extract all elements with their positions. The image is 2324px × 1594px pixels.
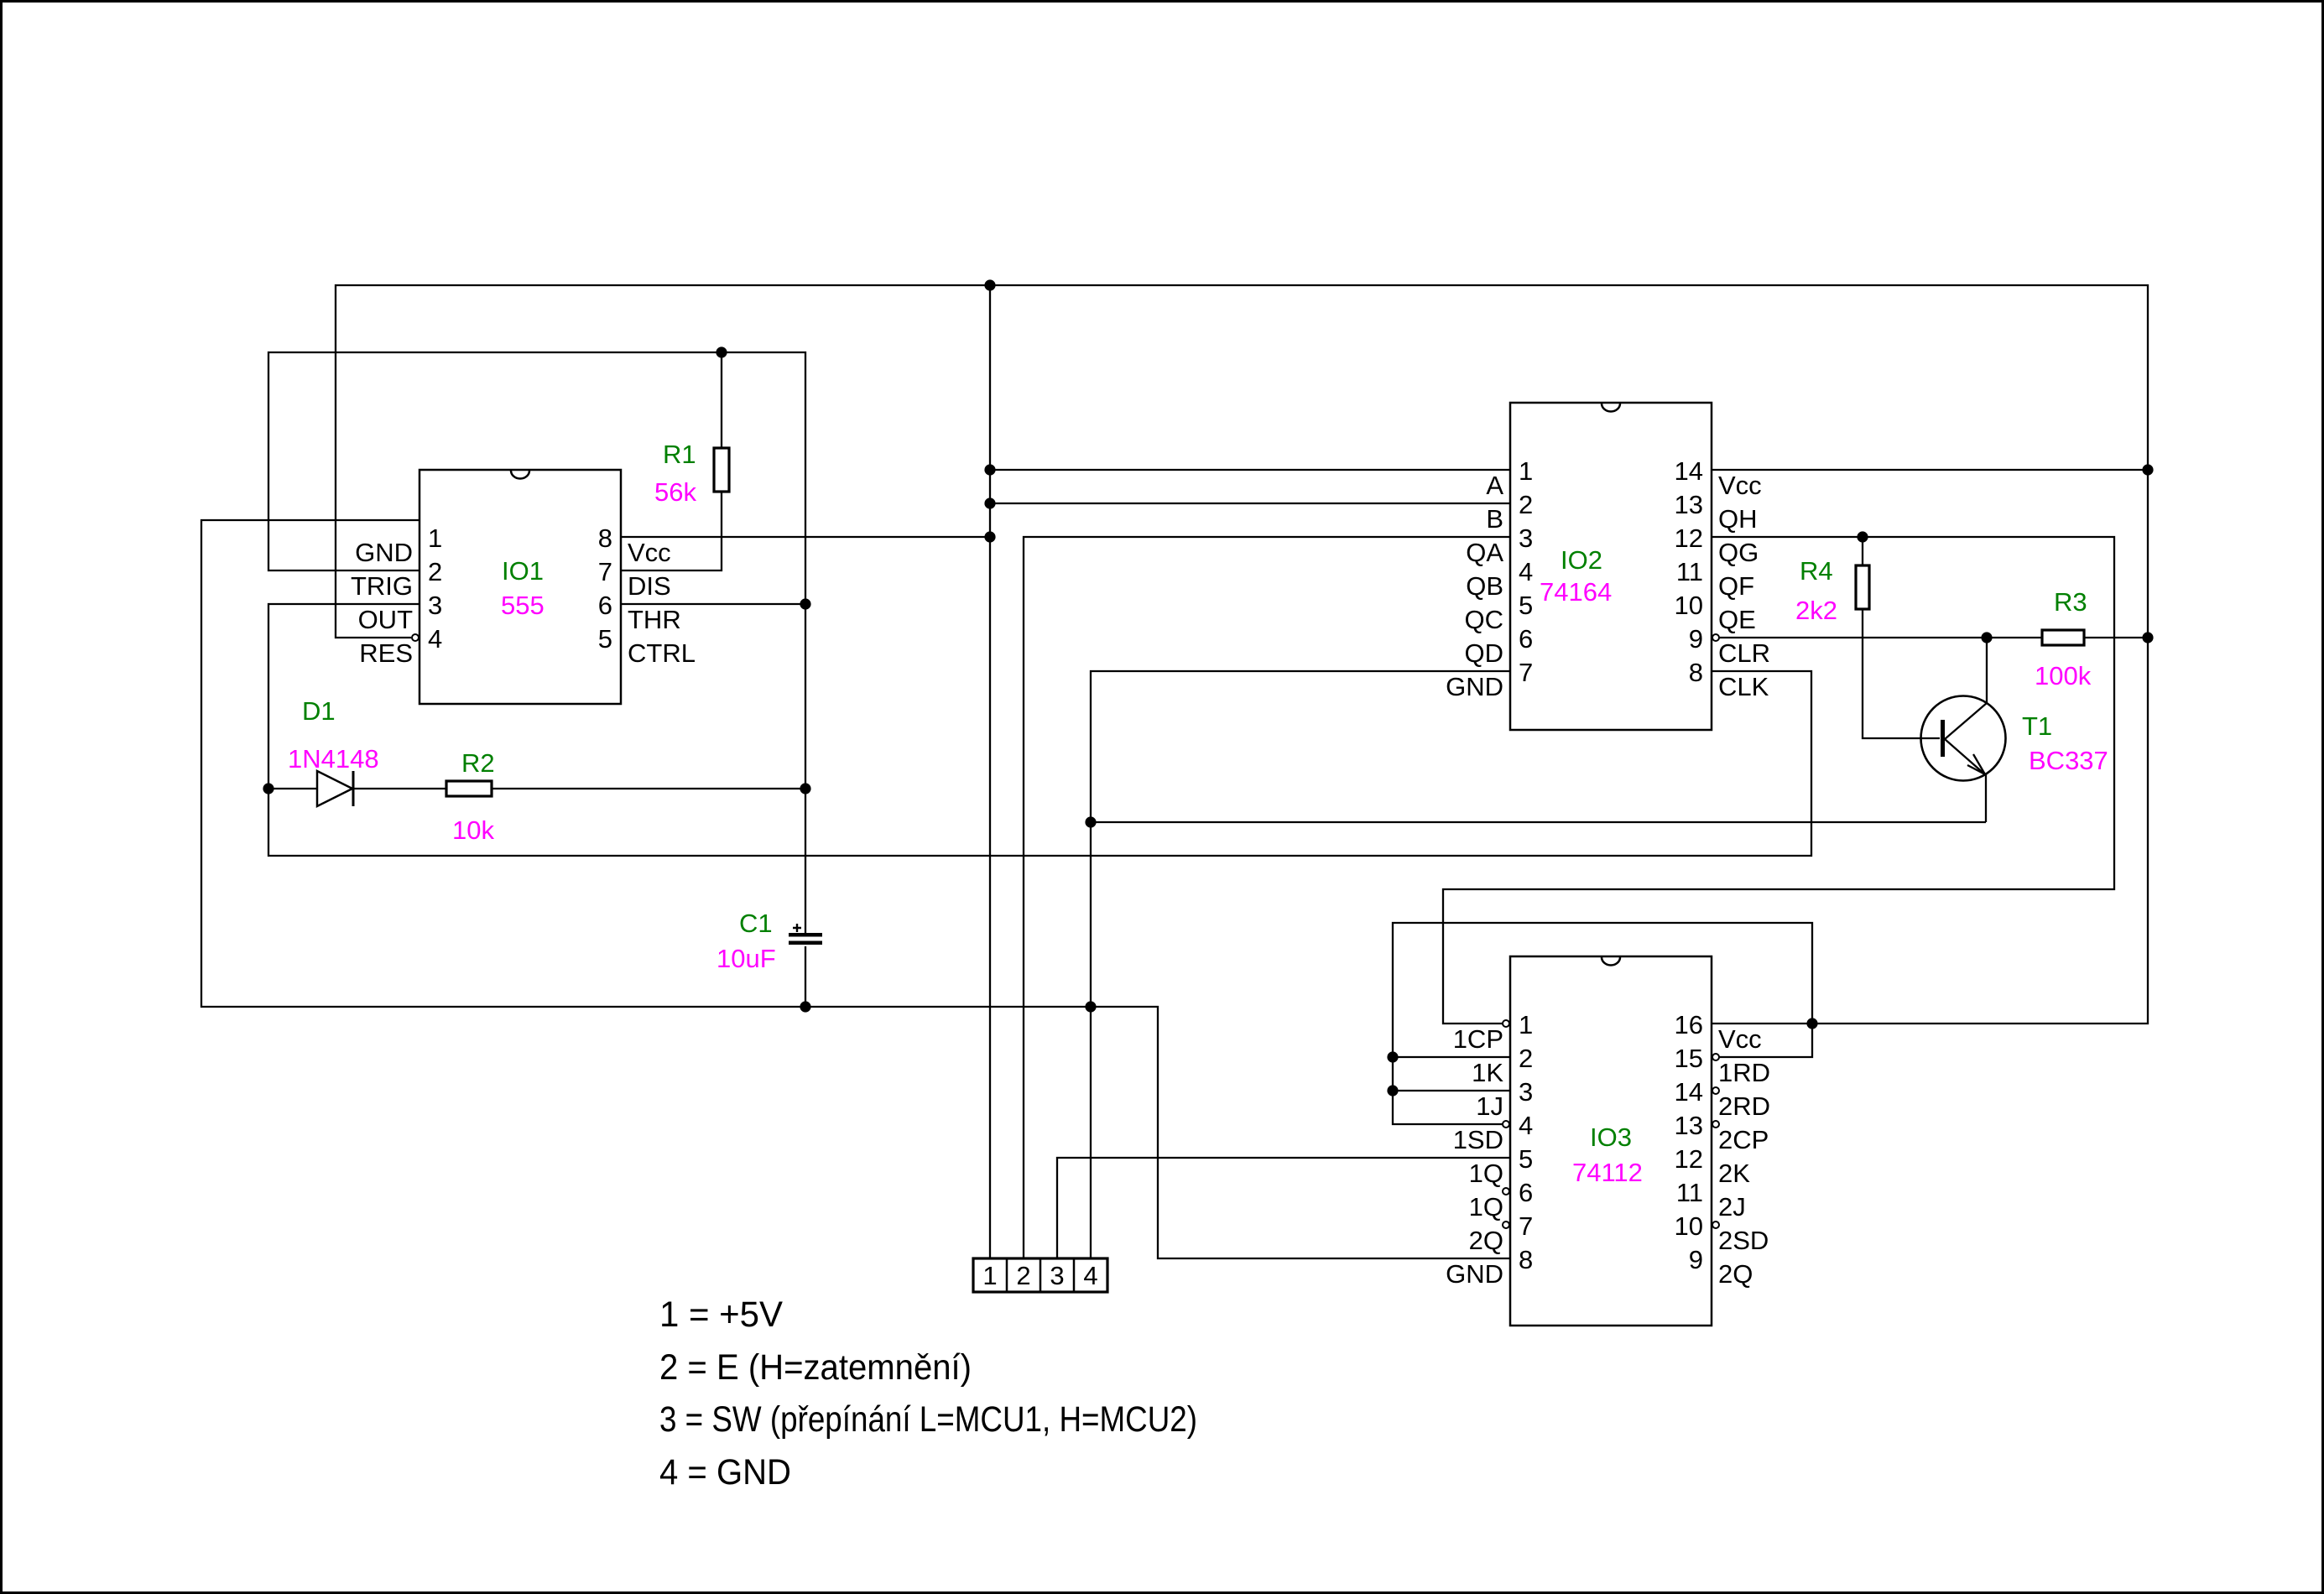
bubble IO3 pin15 1RD [1712,1054,1719,1060]
svg-text:10k: 10k [452,815,494,845]
wire R1 bottom lead to IO1 pin7 DIS [621,492,722,570]
svg-text:R1: R1 [663,440,696,469]
svg-text:12: 12 [1675,524,1703,553]
svg-text:10: 10 [1675,1211,1703,1241]
svg-text:QA: QA [1466,538,1503,567]
wire D1 cathode to R2 [353,788,446,789]
junction R1 top / TRIG rail [716,346,727,357]
junction GND vertical / GND rail [1085,1001,1096,1012]
svg-text:2K: 2K [1718,1159,1750,1188]
svg-text:T1: T1 [2022,711,2052,741]
svg-text:2: 2 [1519,490,1533,519]
wire IO3 pin3 1J stub [1393,1090,1510,1091]
IO1 pin numbers [428,524,612,654]
IO2 pin names [1446,471,1770,701]
svg-text:2CP: 2CP [1718,1125,1769,1154]
wire R4 top lead from QG wire [1862,537,1863,565]
wire R4 bottom lead to T1 base [1863,609,1940,738]
svg-text:QF: QF [1718,571,1754,601]
svg-text:1: 1 [982,1261,997,1290]
junction +5V top rail / drop [984,279,995,290]
wire IO2 pin12 QG loop to IO3 pin1 1CP [1443,537,2114,1024]
wire +5V to IO2 pin1 A [990,469,1510,471]
bubble IO3 pin7 2Q-bar [1503,1222,1509,1228]
svg-text:Vcc: Vcc [628,538,671,567]
svg-text:1CP: 1CP [1453,1024,1503,1054]
svg-text:6: 6 [1519,1178,1533,1207]
svg-text:4: 4 [428,624,442,654]
svg-text:11: 11 [1676,557,1703,586]
capacitor C1 plus sign [793,924,801,932]
wire +5V IO2 pin14 Vcc to right rail [1712,469,2148,471]
svg-text:RES: RES [359,638,413,668]
bubble IO1 pin4 RES [412,634,419,641]
wire IO3 pin2 1K stub [1393,1056,1510,1058]
svg-text:5: 5 [1519,591,1533,620]
svg-text:7: 7 [1519,1211,1533,1241]
svg-text:1N4148: 1N4148 [288,744,379,774]
connector X1 4-pin header [973,1258,1107,1292]
svg-text:15: 15 [1675,1044,1703,1073]
svg-text:4: 4 [1083,1261,1097,1290]
capacitor C1 plates [789,933,822,945]
junction 1J / Vcc feed [1387,1085,1398,1096]
junction QG / R4 [1857,531,1868,542]
svg-text:1SD: 1SD [1453,1125,1503,1154]
wire R2 to THR node [492,788,805,789]
resistor R4 body [1856,565,1869,609]
bubble IO2 pin9 CLR [1712,634,1719,641]
wire +5V to IO2 pin2 B [990,503,1510,504]
IC body IO2 (74164) [1510,403,1712,730]
bubble IO3 pin4 1SD [1503,1121,1509,1128]
svg-text:4: 4 [1519,1111,1533,1140]
wire +5V vertical drop to connector pin 1 [989,285,991,1258]
svg-text:4: 4 [1519,557,1533,586]
svg-text:GND: GND [1446,1259,1503,1289]
svg-text:5: 5 [598,624,612,654]
resistor R3 body [2042,630,2084,645]
svg-text:D1: D1 [302,696,336,726]
svg-text:2Q: 2Q [1469,1226,1503,1255]
svg-text:2k2: 2k2 [1795,596,1837,625]
svg-text:7: 7 [1519,658,1533,687]
svg-text:8: 8 [598,524,612,553]
junction +5V / IO2 pin1 [984,464,995,475]
wire OUT net: IO1 pin3 down, across to IO2 pin8 CLK [268,604,1811,856]
svg-text:QG: QG [1718,538,1759,567]
svg-text:16: 16 [1675,1010,1703,1039]
junction OUT / D1 [263,783,274,794]
svg-text:GND: GND [1446,672,1503,701]
resistor R2 body [446,781,492,796]
svg-text:GND: GND [355,538,413,567]
bubble IO3 pin1 1CP [1503,1020,1509,1027]
svg-text:R3: R3 [2054,587,2087,617]
wire IO3 pin5 1Q to connector pin 3 [1057,1158,1510,1258]
svg-text:13: 13 [1675,1111,1703,1140]
svg-text:555: 555 [501,591,545,620]
svg-text:IO1: IO1 [502,556,544,586]
svg-text:1K: 1K [1472,1058,1503,1087]
svg-text:14: 14 [1675,456,1703,486]
svg-text:IO2: IO2 [1561,545,1602,575]
svg-text:4 = GND: 4 = GND [659,1452,791,1492]
svg-text:11: 11 [1676,1178,1703,1207]
svg-text:9: 9 [1689,624,1703,654]
svg-text:74112: 74112 [1572,1158,1643,1187]
svg-text:DIS: DIS [628,571,671,601]
junction rail / IO2 Vcc [2142,464,2153,475]
svg-text:3: 3 [1519,524,1533,553]
svg-text:2J: 2J [1718,1192,1746,1222]
svg-text:1 = +5V: 1 = +5V [659,1294,783,1335]
wire +5V to IO3 pin15 1RD, pin2 1K, pin3 1J, pin4 1SD [1393,923,1812,1124]
svg-text:3 = SW (přepínání L=MCU1, H=MC: 3 = SW (přepínání L=MCU1, H=MCU2) [659,1399,1197,1440]
op-amp-style IC body IO1 (555 timer) [419,470,621,704]
svg-text:QD: QD [1465,638,1504,668]
svg-text:6: 6 [598,591,612,620]
connector pin numbers [982,1261,1097,1290]
svg-text:14: 14 [1675,1077,1703,1107]
wire T1 emitter to GND vertical [1091,821,1986,823]
bubble IO3 pin6 1Q-bar [1503,1188,1509,1195]
svg-text:THR: THR [628,605,681,634]
svg-text:B: B [1486,504,1503,534]
svg-text:CTRL: CTRL [628,638,696,668]
svg-text:13: 13 [1675,490,1703,519]
wire D1 anode lead [268,788,317,789]
svg-text:QB: QB [1466,571,1503,601]
svg-text:7: 7 [598,557,612,586]
svg-text:BC337: BC337 [2029,746,2108,775]
svg-text:74164: 74164 [1540,577,1612,607]
svg-text:IO3: IO3 [1590,1123,1632,1152]
wire TRIG/THR net: IO1 pin2 to rail to C1 top [268,352,805,933]
svg-text:2: 2 [1016,1261,1030,1290]
svg-text:QE: QE [1718,605,1756,634]
bubble IO3 pin10 2SD [1712,1222,1719,1228]
svg-text:3: 3 [1519,1077,1533,1107]
diode D1 symbol [317,771,353,806]
svg-text:3: 3 [1050,1261,1064,1290]
svg-text:2Q: 2Q [1718,1259,1753,1289]
wire IO2 pin9 CLR to R3 [1719,637,2042,638]
junction Vcc wire / 1RD riser [1806,1018,1817,1029]
junction +5V / IO2 pin2 [984,497,995,508]
wire IO1 pin6 THR stub [621,603,805,605]
svg-text:5: 5 [1519,1144,1533,1174]
svg-text:8: 8 [1689,658,1703,687]
svg-text:6: 6 [1519,624,1533,654]
svg-text:C1: C1 [739,909,773,938]
svg-text:Vcc: Vcc [1718,471,1762,500]
svg-text:1: 1 [1519,456,1533,486]
svg-text:CLR: CLR [1718,638,1770,668]
IO1 pin names [351,538,696,668]
svg-text:8: 8 [1519,1245,1533,1274]
svg-text:10: 10 [1675,591,1703,620]
junction 1K / Vcc feed [1387,1051,1398,1062]
wire T1 collector lead [1986,638,1988,703]
svg-text:Vcc: Vcc [1718,1024,1762,1054]
svg-text:12: 12 [1675,1144,1703,1174]
svg-text:CLK: CLK [1718,672,1769,701]
svg-text:1RD: 1RD [1718,1058,1770,1087]
wire GND net: IO1 pin1 down, bottom rail, to IO3 pin8 GND [201,520,1510,1258]
svg-text:R4: R4 [1800,556,1833,586]
svg-text:10uF: 10uF [716,944,776,973]
IO3 pin numbers [1519,1010,1703,1274]
svg-text:2SD: 2SD [1718,1226,1769,1255]
junction emitter / GND vertical [1085,816,1096,827]
svg-text:100k: 100k [2035,661,2092,690]
svg-text:9: 9 [1689,1245,1703,1274]
svg-text:1: 1 [428,524,442,553]
svg-text:56k: 56k [654,477,696,507]
svg-text:2RD: 2RD [1718,1091,1770,1121]
wire R1 top lead [721,352,722,448]
svg-text:2: 2 [428,557,442,586]
svg-text:OUT: OUT [358,605,414,634]
svg-text:QC: QC [1465,605,1504,634]
wire C1 bottom lead [805,946,806,1007]
junction R2 / THR vertical [800,783,810,794]
svg-text:1J: 1J [1476,1091,1503,1121]
wire +5V to IO1 pin8 Vcc [621,536,990,538]
svg-text:3: 3 [428,591,442,620]
svg-text:R2: R2 [461,748,495,778]
IC body IO3 (74112) [1510,956,1712,1326]
wire IO2 pin3 QA down to connector pin 2 [1024,537,1510,1258]
IO3 pin names [1446,1024,1770,1289]
wire +5V: RES pin4 stub, top rail, right rail, to IO3 pin16 [336,285,2148,1024]
svg-text:QH: QH [1718,504,1758,534]
junction rail / R3 [2142,632,2153,643]
svg-text:1Q: 1Q [1469,1159,1503,1188]
bubble IO3 pin14 2RD [1712,1087,1719,1094]
transistor T1 BC337 [1921,696,2006,823]
junction THR / vertical [800,598,810,609]
svg-text:1Q: 1Q [1469,1192,1503,1222]
wire GND IO2 pin7 down to connector pin 4 [1091,671,1510,1258]
svg-text:2: 2 [1519,1044,1533,1073]
svg-text:2 = E (H=zatemnění): 2 = E (H=zatemnění) [659,1347,972,1388]
svg-text:A: A [1486,471,1503,500]
svg-text:1: 1 [1519,1010,1533,1039]
junction C1 / GND rail [800,1001,810,1012]
bubble IO3 pin13 2CP [1712,1121,1719,1128]
junction +5V / IO1 pin8 [984,531,995,542]
resistor R1 body [714,448,729,492]
wire R3 right lead to +5V rail [2084,637,2148,638]
IO2 pin numbers [1519,456,1703,687]
svg-text:TRIG: TRIG [351,571,413,601]
junction CLR wire / collector [1981,632,1992,643]
